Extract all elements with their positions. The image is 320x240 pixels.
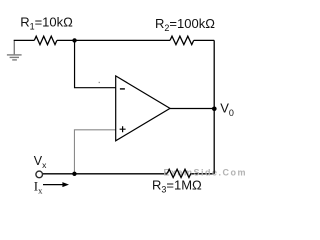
svg-text:R3=1MΩ: R3=1MΩ	[152, 178, 202, 195]
resistor R1	[34, 36, 57, 44]
op-amp minus pin mark	[120, 88, 125, 90]
wire inverting branch	[75, 40, 116, 87]
op-amp U1	[116, 76, 170, 141]
wire R2 to right corner	[194, 39, 215, 41]
wire ground to R1	[14, 39, 35, 41]
op-amp plus pin mark	[120, 126, 126, 132]
current arrow Ix	[43, 184, 63, 186]
wire R1 to R2	[57, 39, 170, 41]
node A (inverting input node)	[72, 38, 76, 42]
wire op-amp output to node	[170, 108, 214, 110]
ground	[7, 40, 22, 60]
resistor R3	[167, 169, 191, 177]
wire non-inverting branch	[74, 130, 115, 174]
stray dot	[99, 82, 100, 83]
wire bottom left	[43, 173, 168, 175]
resistor R2	[170, 36, 194, 44]
wire bottom right	[191, 173, 214, 175]
node B (non-inverting junction)	[72, 172, 76, 176]
svg-text:R2=100kΩ: R2=100kΩ	[155, 16, 215, 33]
terminal Vx	[36, 171, 43, 178]
wire right vertical	[213, 40, 215, 173]
node Vo (output node)	[212, 107, 217, 112]
svg-text:R1=10kΩ: R1=10kΩ	[20, 15, 73, 32]
